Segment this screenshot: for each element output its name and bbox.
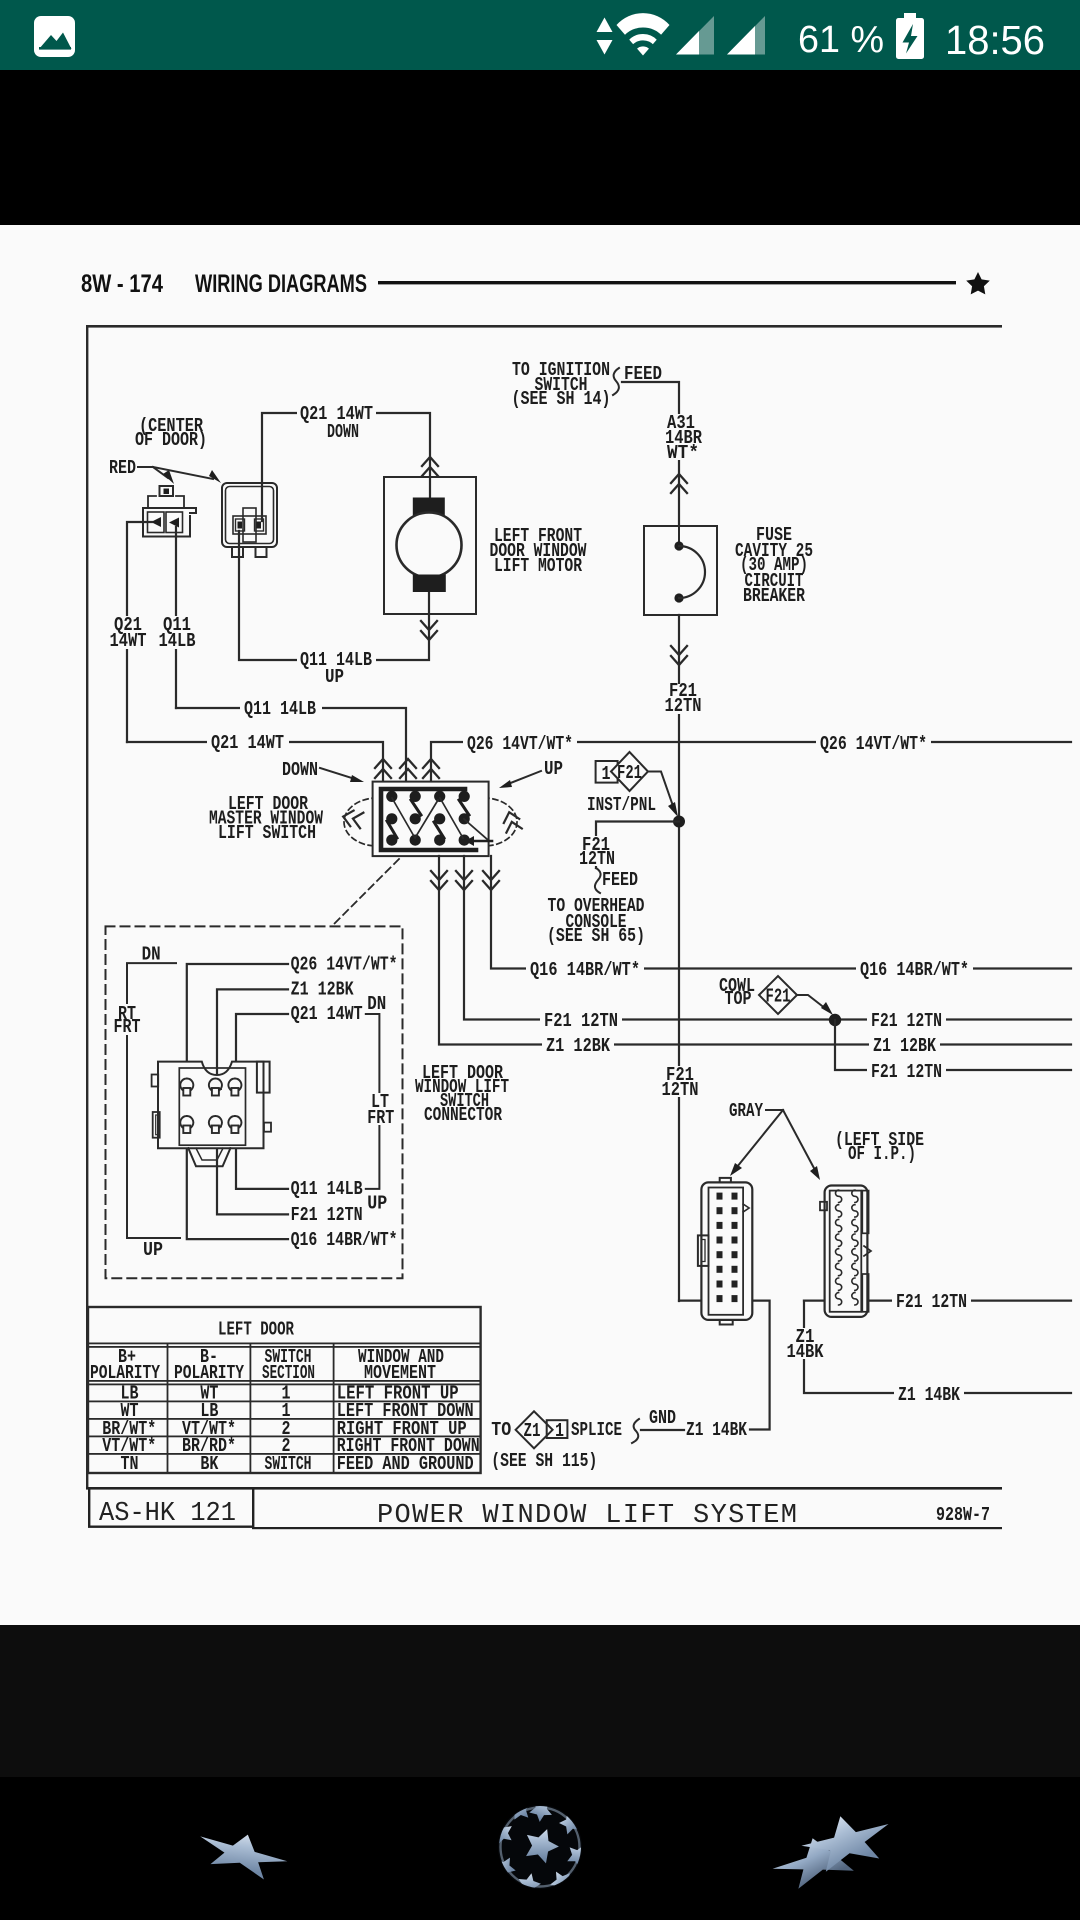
splice squiggle at ignition feed bbox=[613, 368, 619, 395]
label (CENTER OF DOOR) bbox=[135, 415, 207, 451]
chevron on Z1 wire below switch bbox=[431, 871, 447, 890]
wire A31 14BR WT* feed to circuit breaker bbox=[622, 382, 679, 526]
wire Z1 12BK from switch to right edge bbox=[439, 856, 1071, 1045]
svg-text:WIRING DIAGRAMS: WIRING DIAGRAMS bbox=[195, 270, 367, 298]
label F21 12TN (right of cowl junction) bbox=[867, 1010, 946, 1032]
wire F21 12TN into gray connector bbox=[679, 1299, 714, 1301]
svg-text:OF DOOR): OF DOOR) bbox=[135, 429, 207, 451]
svg-text:Q16 14BR/WT*: Q16 14BR/WT* bbox=[530, 959, 640, 981]
label LEFT FRONT DOOR WINDOW LIFT MOTOR bbox=[490, 525, 587, 577]
svg-text:12TN: 12TN bbox=[579, 848, 615, 870]
svg-text:Q26 14VT/WT*: Q26 14VT/WT* bbox=[291, 954, 398, 976]
svg-text:AS-HK 121: AS-HK 121 bbox=[99, 1499, 236, 1529]
label Q16 14BR/WT* (right) bbox=[856, 959, 973, 981]
svg-text:OF I.P.): OF I.P.) bbox=[848, 1143, 916, 1165]
wire Z1 14BK down from I.P. connector bbox=[804, 1301, 1071, 1393]
wire F21 12TN from switch to right edge bbox=[464, 856, 1071, 1020]
label F21 12TN vertical on main wire bbox=[658, 1064, 702, 1101]
svg-text:BREAKER: BREAKER bbox=[743, 585, 805, 607]
label Q26 14VT/WT* (near switch) bbox=[463, 733, 577, 755]
connector symbol 1&lt;F21 at INST/PNL bbox=[596, 752, 678, 817]
wire F21 12TN breaker to INST/PNL junction bbox=[678, 615, 680, 1301]
svg-text:1: 1 bbox=[555, 1420, 564, 1442]
label Q21 14WT DOWN bbox=[297, 403, 376, 443]
label TO IGNITION SWITCH (SEE SH 14) bbox=[512, 359, 611, 410]
svg-text:Q26 14VT/WT*: Q26 14VT/WT* bbox=[467, 733, 573, 755]
cellular signal icon 1 bbox=[676, 16, 714, 55]
label F21 12TN (far right) bbox=[892, 1291, 971, 1313]
label (LEFT SIDE OF I.P.) bbox=[835, 1129, 924, 1165]
left door window lift switch connector (6-way) bbox=[152, 1062, 271, 1167]
data up/down arrows icon bbox=[597, 18, 613, 33]
wire Q16 14BR/WT* from switch to right edge bbox=[491, 856, 1071, 969]
svg-text:LEFT DOOR: LEFT DOOR bbox=[218, 1319, 294, 1341]
wire Q21 14WT to master switch bbox=[127, 742, 383, 782]
label Z1 14BK vertical bbox=[783, 1326, 827, 1363]
dashed leader from switch to detail box bbox=[333, 859, 399, 925]
svg-text:61 %: 61 % bbox=[798, 19, 884, 61]
starball app icon bbox=[487, 1793, 593, 1896]
left star app icon bbox=[194, 1822, 292, 1884]
svg-text:928W-7: 928W-7 bbox=[936, 1504, 990, 1526]
wire Q16 14BR/WT* from connector pin F bbox=[187, 1122, 288, 1239]
I.P. side connector (8-way, left side of I.P.) bbox=[820, 1186, 871, 1317]
gray in-line connector (8-way) bbox=[698, 1178, 752, 1325]
svg-text:TN: TN bbox=[121, 1453, 139, 1475]
svg-text:18:56: 18:56 bbox=[945, 17, 1045, 63]
svg-text:GRAY: GRAY bbox=[729, 1100, 763, 1122]
svg-text:1: 1 bbox=[602, 763, 611, 785]
label LEFT DOOR WINDOW LIFT SWITCH CONNECTOR bbox=[415, 1062, 509, 1126]
label LT FRT bbox=[362, 1091, 398, 1129]
svg-text:F21: F21 bbox=[617, 762, 642, 784]
wire Z1 12BK to connector pin B bbox=[217, 989, 288, 1085]
svg-text:F21 12TN: F21 12TN bbox=[896, 1291, 967, 1313]
chevron right of cloud bbox=[501, 810, 521, 832]
right star app icon (front) bbox=[797, 1805, 896, 1876]
svg-text:FEED AND GROUND: FEED AND GROUND bbox=[337, 1453, 474, 1475]
bracket RT FRT (left) bbox=[127, 963, 180, 1238]
chevron on wire Q11 below motor bbox=[421, 621, 437, 640]
wire stub motor connector right pin bbox=[175, 527, 177, 708]
svg-text:LIFT MOTOR: LIFT MOTOR bbox=[494, 555, 582, 577]
svg-text:TO: TO bbox=[491, 1419, 511, 1441]
svg-text:12TN: 12TN bbox=[665, 695, 702, 717]
gallery app icon bbox=[34, 16, 75, 57]
svg-text:F21 12TN: F21 12TN bbox=[544, 1010, 618, 1032]
wire Q21 14WT to connector pin C bbox=[236, 1014, 288, 1085]
svg-text:Q26 14VT/WT*: Q26 14VT/WT* bbox=[820, 733, 927, 755]
svg-text:Z1 12BK: Z1 12BK bbox=[291, 979, 354, 1001]
splice Z1 symbol and leadout bbox=[491, 1407, 747, 1472]
label LEFT DOOR MASTER WINDOW LIFT SWITCH bbox=[209, 793, 323, 844]
left door switch logic table bbox=[88, 1307, 481, 1475]
wire Q21 14WT from motor connector to DOWN label bbox=[262, 413, 430, 521]
door connector (power window, 4-way) bbox=[222, 483, 277, 557]
svg-text:BK: BK bbox=[200, 1453, 218, 1475]
label COWL TOP bbox=[719, 975, 755, 1010]
chevron on wire Q21 above motor bbox=[422, 457, 438, 476]
svg-text:UP: UP bbox=[367, 1193, 387, 1215]
svg-text:UP: UP bbox=[544, 758, 563, 780]
sheet border top bbox=[86, 325, 1002, 328]
label Q26 14VT/WT* (right) bbox=[816, 733, 931, 755]
svg-text:DN: DN bbox=[142, 944, 161, 966]
svg-text:Q11 14LB: Q11 14LB bbox=[291, 1178, 363, 1200]
svg-text:INST/PNL: INST/PNL bbox=[587, 794, 656, 816]
wire F21 12TN from connector pin E bbox=[217, 1122, 288, 1214]
svg-text:SPLICE: SPLICE bbox=[571, 1419, 622, 1441]
svg-text:F21 12TN: F21 12TN bbox=[871, 1061, 942, 1083]
label Z1 14BK (far right) bbox=[894, 1384, 964, 1406]
svg-text:FEED: FEED bbox=[602, 869, 638, 891]
left front door window lift motor bbox=[384, 477, 476, 614]
svg-text:UP: UP bbox=[143, 1239, 163, 1261]
svg-text:12TN: 12TN bbox=[662, 1079, 699, 1101]
label Q11 14LB inline bbox=[240, 698, 322, 720]
svg-text:Z1 14BK: Z1 14BK bbox=[898, 1384, 960, 1406]
svg-text:Z1 12BK: Z1 12BK bbox=[873, 1035, 936, 1057]
svg-text:UP: UP bbox=[325, 666, 344, 688]
svg-text:POWER WINDOW LIFT SYSTEM: POWER WINDOW LIFT SYSTEM bbox=[377, 1501, 797, 1531]
dashed detail box bbox=[106, 926, 403, 1278]
svg-text:14WT: 14WT bbox=[110, 630, 147, 652]
chevron on F21 wire below switch bbox=[456, 871, 472, 890]
sheet border left bbox=[86, 325, 88, 1489]
label A31 14BR WT* bbox=[662, 412, 706, 464]
dashed connector cloud around master switch bbox=[344, 798, 377, 846]
wire F21 12TN through I.P. connector to right edge bbox=[804, 1299, 1071, 1301]
label RT FRT bbox=[108, 1003, 146, 1038]
svg-text:POLARITY: POLARITY bbox=[174, 1362, 244, 1384]
wire Q26 14VT/WT* to connector pin A bbox=[187, 964, 288, 1085]
svg-text:Z1 14BK: Z1 14BK bbox=[686, 1419, 747, 1441]
svg-text:DN: DN bbox=[367, 993, 386, 1015]
junction dot INST/PNL on F21 bbox=[673, 816, 685, 828]
svg-text:MOVEMENT: MOVEMENT bbox=[364, 1362, 436, 1384]
svg-text:SWITCH: SWITCH bbox=[265, 1453, 312, 1475]
battery charging icon bbox=[904, 13, 916, 20]
label Q16 14BR/WT* (left) bbox=[526, 959, 644, 981]
label UP with arrow to switch bbox=[499, 758, 563, 788]
svg-text:F21 12TN: F21 12TN bbox=[291, 1204, 363, 1226]
svg-text:Z1: Z1 bbox=[524, 1420, 541, 1442]
svg-text:Q21 14WT: Q21 14WT bbox=[211, 732, 284, 754]
connector symbol F21 at COWL TOP bbox=[759, 976, 833, 1015]
left door master window lift switch bbox=[373, 782, 492, 857]
label Q11 14LB UP bbox=[297, 649, 376, 688]
label F21 12TN (lower right branch) bbox=[867, 1061, 946, 1083]
label RED with leader arrows bbox=[109, 457, 221, 484]
svg-text:F21 12TN: F21 12TN bbox=[871, 1010, 942, 1032]
svg-text:14BK: 14BK bbox=[787, 1341, 824, 1363]
svg-text:14LB: 14LB bbox=[159, 630, 196, 652]
chevron left of cloud bbox=[341, 809, 363, 829]
svg-text:DOWN: DOWN bbox=[327, 421, 359, 443]
svg-text:(SEE SH 115): (SEE SH 115) bbox=[491, 1450, 597, 1472]
svg-text:LIFT SWITCH: LIFT SWITCH bbox=[218, 822, 316, 844]
svg-text:(SEE SH 14): (SEE SH 14) bbox=[512, 388, 611, 410]
cellular signal icon 2 bbox=[727, 16, 765, 55]
chevrons on three wires entering switch top bbox=[375, 759, 391, 778]
svg-text:GND: GND bbox=[649, 1407, 676, 1429]
svg-text:Q16 14BR/WT*: Q16 14BR/WT* bbox=[860, 959, 969, 981]
svg-text:Q11 14LB: Q11 14LB bbox=[244, 698, 316, 720]
wire stub motor connector left pin bbox=[127, 522, 152, 742]
svg-text:DOWN: DOWN bbox=[282, 759, 318, 781]
svg-text:SECTION: SECTION bbox=[262, 1362, 315, 1384]
wire Z1 14BK from gray connector to splice bbox=[739, 1301, 770, 1430]
label Q21 14WT vertical bbox=[107, 614, 149, 652]
label GRAY with arrows to both connectors bbox=[729, 1100, 820, 1180]
wire Q11 14LB from connector pin D bbox=[236, 1122, 288, 1189]
svg-text:8W - 174: 8W - 174 bbox=[81, 270, 163, 298]
svg-text:(SEE SH 65): (SEE SH 65) bbox=[547, 925, 645, 947]
right star app icon (back) bbox=[767, 1824, 871, 1895]
label DOWN with arrow to switch bbox=[282, 759, 364, 782]
svg-text:FRT: FRT bbox=[114, 1016, 141, 1038]
wire branch to overhead console feed bbox=[596, 822, 679, 869]
chevron on Q16 wire below switch bbox=[483, 871, 499, 890]
wire Q26 14VT/WT* from master switch to right edge bbox=[431, 742, 1071, 782]
wifi icon bbox=[617, 13, 670, 55]
label F21 12TN (overhead console branch) bbox=[575, 834, 617, 870]
svg-text:CONNECTOR: CONNECTOR bbox=[424, 1104, 502, 1126]
junction dot COWL TOP on F21 bbox=[829, 1014, 841, 1026]
wire Q11 14LB from motor bottom to motor connector bbox=[239, 531, 429, 660]
label Q21 14WT inline bbox=[207, 732, 289, 754]
chevron on wire A31 bbox=[671, 474, 687, 493]
wire Q11 14LB to master switch bbox=[176, 708, 406, 782]
svg-text:RED: RED bbox=[109, 457, 136, 479]
svg-text:Q21 14WT: Q21 14WT bbox=[291, 1003, 363, 1025]
bracket LT FRT (right) bbox=[366, 1014, 380, 1189]
label TO OVERHEAD CONSOLE (SEE SH 65) bbox=[547, 895, 645, 947]
svg-text:WT*: WT* bbox=[667, 442, 699, 464]
splice squiggle at overhead feed bbox=[595, 868, 601, 893]
label F21 12TN (left) bbox=[540, 1010, 622, 1032]
svg-text:F21: F21 bbox=[766, 986, 791, 1008]
label Z1 12BK (left) bbox=[542, 1035, 614, 1057]
svg-text:POLARITY: POLARITY bbox=[90, 1362, 160, 1384]
label F21 12TN below breaker bbox=[661, 680, 703, 717]
wire F21 12TN branch down from cowl junction bbox=[835, 1020, 1071, 1070]
label Q11 14LB vertical bbox=[156, 614, 198, 652]
chevron on wire F21 below breaker bbox=[671, 646, 687, 665]
motor connector (small, 2-cavity) bbox=[143, 486, 196, 537]
fuse cavity 25 (30 amp) circuit breaker bbox=[644, 526, 717, 615]
label FUSE CAVITY 25 (30 AMP) CIRCUIT BREAKER bbox=[735, 524, 813, 607]
svg-text:FRT: FRT bbox=[367, 1107, 394, 1129]
svg-text:Q16 14BR/WT*: Q16 14BR/WT* bbox=[291, 1229, 398, 1251]
svg-text:Z1 12BK: Z1 12BK bbox=[546, 1035, 610, 1057]
svg-text:TOP: TOP bbox=[725, 988, 752, 1010]
label Z1 12BK (right) bbox=[869, 1035, 940, 1057]
